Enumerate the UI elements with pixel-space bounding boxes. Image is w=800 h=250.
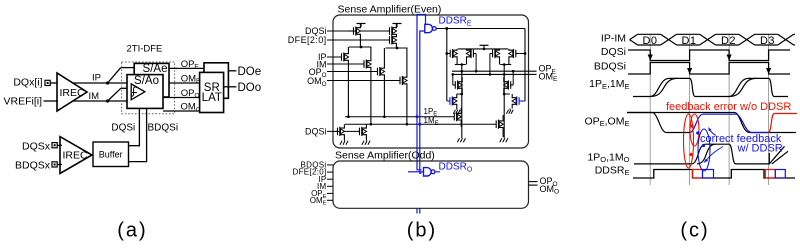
svg-text:LAT: LAT xyxy=(202,92,222,104)
wire OMo xyxy=(163,110,200,112)
wire DQSi to S/Ao xyxy=(129,108,139,145)
VDD symbol T1 xyxy=(357,23,366,25)
wire P7 gate lead xyxy=(519,53,525,55)
sampling switch wire to S/Ao xyxy=(108,88,121,101)
ground (N10) xyxy=(509,109,511,110)
transistor N12 gate 1Me xyxy=(495,123,497,125)
DDSR corrected pulse 1 (blue) xyxy=(703,170,714,179)
wire IREC to Buffer xyxy=(91,154,93,156)
wire IP stub (odd) xyxy=(327,178,333,180)
svg-text:1PE,1ME: 1PE,1ME xyxy=(589,78,629,91)
svg-text:IM: IM xyxy=(89,91,100,102)
wire N9 drain to spine xyxy=(457,93,462,95)
junction dots on 1M rail xyxy=(370,123,373,126)
waveform 1Mo trace xyxy=(697,144,716,164)
wire odd feedback stubs (blue) xyxy=(416,208,418,213)
svg-text:IP: IP xyxy=(92,73,101,84)
junction dot IM xyxy=(106,99,109,102)
wire N7 gate to OMe xyxy=(452,74,454,85)
svg-text:OPO: OPO xyxy=(181,88,200,100)
annotation arrow to OPe rise (blue) xyxy=(710,130,717,136)
transistor N2 gate IM xyxy=(363,63,365,65)
svg-text:S/Ao: S/Ao xyxy=(134,75,159,87)
arrow DQSi fall 2 xyxy=(727,55,732,61)
svg-text:DQx[i]: DQx[i] xyxy=(13,77,42,89)
VDD symbol T3 (latch) xyxy=(480,44,489,46)
transistor P5 (latch left) xyxy=(473,53,476,55)
wire OPE stub (odd) xyxy=(327,192,333,194)
wire OMo stub (odd out) xyxy=(529,184,538,186)
wire 1Pe sense (blue) xyxy=(417,15,426,170)
junction dot IP xyxy=(106,81,109,84)
wire OPo gate line (even) xyxy=(327,71,378,73)
svg-text:DQSi: DQSi xyxy=(305,127,327,137)
svg-text:OPE: OPE xyxy=(181,59,200,71)
wire DDSR output xyxy=(436,28,525,30)
DDSR corrected pulse 2 (blue) xyxy=(775,170,785,179)
ground (latch right) xyxy=(503,137,505,138)
latch supply rail xyxy=(458,48,508,50)
annotation ellipse error 2 (red) xyxy=(690,114,699,146)
node bar latch left xyxy=(455,64,466,66)
wire OPo stub (odd out) xyxy=(529,181,538,183)
svg-text:D3: D3 xyxy=(760,35,775,47)
waveform OPe corrected (blue) xyxy=(690,114,770,132)
ground (N9) xyxy=(456,109,458,110)
block Buffer xyxy=(93,142,129,167)
wire IM stub (odd) xyxy=(327,185,333,187)
transistor P1 (DQSi precharge) xyxy=(348,30,354,32)
2TI-DFE dashed box xyxy=(122,62,175,114)
wire DFE[2:0] stub (odd) xyxy=(327,171,333,173)
svg-text:(a): (a) xyxy=(117,220,147,242)
wire DOe xyxy=(228,70,236,72)
wire BDQSi stub (odd) xyxy=(327,164,333,166)
NAND gate DDSRe xyxy=(425,24,433,32)
transistor N3 gate OPo xyxy=(376,71,378,73)
node bar under P2/P3 xyxy=(386,47,408,49)
transistor N9 (DDSR nmos left, blue) xyxy=(447,100,450,102)
svg-text:1ME: 1ME xyxy=(424,116,439,127)
block S/Ae (even sense amp) xyxy=(134,63,169,97)
svg-text:D2: D2 xyxy=(721,35,736,47)
annotation arrow to DDSR pulse (blue) xyxy=(706,147,724,162)
svg-text:Sense Amplifier(Even): Sense Amplifier(Even) xyxy=(338,4,442,16)
node bar under P1 xyxy=(349,46,371,48)
svg-text:DQSi: DQSi xyxy=(601,46,626,58)
svg-text:DQSi: DQSi xyxy=(111,123,135,134)
transistor P7 (DDSR reset right) xyxy=(516,53,519,55)
latch left spine wire xyxy=(461,65,463,138)
transistor N8 (latch nmos right) xyxy=(511,84,514,86)
DDSR missed pulse 1 (red) xyxy=(693,170,703,179)
svg-text:OPE,OME: OPE,OME xyxy=(584,115,629,128)
waveform 1Pe trace xyxy=(633,78,788,96)
svg-text:VREFi[i]: VREFi[i] xyxy=(3,96,42,108)
annotation dot blue 1 xyxy=(696,131,699,134)
block SR LAT (even latch) xyxy=(204,63,228,99)
block SR LAT (odd latch) xyxy=(200,72,224,112)
waveform 1Me trace xyxy=(650,78,678,96)
wire DOo xyxy=(224,86,237,88)
wire OPo xyxy=(163,97,200,99)
transistor N6 tail (DQSi) xyxy=(358,130,360,132)
pad symbol DQx xyxy=(45,80,50,85)
svg-text:DQSx: DQSx xyxy=(22,140,51,152)
net 1Me rail xyxy=(345,123,496,125)
svg-text:1PO,1MO: 1PO,1MO xyxy=(587,151,629,164)
svg-text:w/ DDSR: w/ DDSR xyxy=(737,143,783,155)
svg-text:D0: D0 xyxy=(642,35,657,47)
wire P6 gate to OMe xyxy=(489,54,491,75)
svg-text:DDSRE: DDSRE xyxy=(595,164,630,177)
wire IM gate line (even) xyxy=(327,63,364,65)
svg-text:DDSRE: DDSRE xyxy=(439,16,472,28)
annotation dot blue 2 xyxy=(702,144,705,147)
wire 1Me sense (blue) xyxy=(420,31,425,173)
svg-text:OMO: OMO xyxy=(181,102,201,114)
amp symbol inside S/Ao xyxy=(131,84,145,100)
svg-text:BDQSi: BDQSi xyxy=(594,60,626,72)
wire N10 drain to spine xyxy=(504,93,510,95)
wire OPe (even out) xyxy=(452,70,537,72)
waveform OPe trace black xyxy=(627,113,690,133)
transistor N11 gate 1Pe xyxy=(453,116,455,118)
wire DQSi tail gate line xyxy=(327,130,360,132)
svg-text:OME: OME xyxy=(181,73,201,85)
transistor P4 (DDSR reset left) xyxy=(447,53,450,55)
amplifier IREC (strobe receiver) xyxy=(60,137,92,174)
latch right spine wire xyxy=(503,65,505,138)
svg-text:(c): (c) xyxy=(680,220,709,242)
block S/Ao (odd sense amp) xyxy=(127,75,163,109)
svg-text:Buffer: Buffer xyxy=(99,150,123,160)
waveform BDQSi xyxy=(628,63,790,75)
wire DDSRo input lead (blue) xyxy=(408,171,424,173)
transistor P6 (latch right) xyxy=(490,53,493,55)
wire BDQSx xyxy=(58,164,63,166)
amplifier IREC (data receiver) xyxy=(57,73,87,111)
transistor N10 (DDSR nmos right, blue) xyxy=(519,100,525,102)
wire BDQSi to S/Ao xyxy=(129,108,147,161)
svg-text:BDQSi: BDQSi xyxy=(148,123,179,134)
wire DDSRo output stub (blue) xyxy=(435,171,440,173)
Sense Amplifier(Odd) box xyxy=(333,161,529,208)
ground (latch left) xyxy=(461,137,463,138)
svg-text:DOo: DOo xyxy=(238,82,262,94)
waveform 1Po late rise lines xyxy=(769,146,784,164)
junction dots on 1P rail xyxy=(347,115,350,118)
NAND gate DDSRo xyxy=(424,168,432,176)
wire IP xyxy=(73,82,127,84)
waveform DDSRe xyxy=(633,170,795,179)
transistor N5 tail (DQSi) xyxy=(336,130,338,132)
svg-text:DOe: DOe xyxy=(238,66,262,78)
wire IP gate line (even) xyxy=(327,56,342,58)
DDSR missed pulse 2 (red) xyxy=(765,170,775,179)
waveform OMe trace xyxy=(627,113,796,133)
ground (tail N6) xyxy=(365,140,367,141)
svg-text:IREC: IREC xyxy=(63,150,89,162)
junction blue dot 1Pe xyxy=(416,115,419,118)
annotation dot red 1 xyxy=(690,124,693,127)
svg-text:feedback error w/o DDSR: feedback error w/o DDSR xyxy=(666,101,791,113)
svg-text:(b): (b) xyxy=(407,220,437,242)
svg-text:IP-IM: IP-IM xyxy=(601,33,626,45)
annotation ellipse error 1 (red) xyxy=(684,114,694,168)
wire OMe xyxy=(169,82,200,84)
net 1Pe rail xyxy=(345,116,454,118)
wire N8 gate to OPe xyxy=(512,71,514,85)
waveform IP-IM data eye xyxy=(630,34,638,39)
annotation ellipse correct (blue) xyxy=(698,129,710,171)
Sense Amplifier(Even) box xyxy=(333,15,529,148)
wire DFE gate line (even) xyxy=(327,39,390,41)
arrow BDQSi fall 2 xyxy=(766,68,771,74)
wire P5 gate to OPe xyxy=(475,54,477,72)
annotation dot red 2 xyxy=(689,153,692,156)
wire DQSi gate line (even) xyxy=(327,30,390,32)
svg-text:DDSRO: DDSRO xyxy=(439,162,473,174)
junction blue dot 1Me xyxy=(418,123,421,126)
sampling switch wire to S/Ae xyxy=(108,68,121,83)
transistor P3 (DFE tap) xyxy=(388,39,390,41)
ground (tail N5) xyxy=(343,140,345,141)
svg-text:D1: D1 xyxy=(681,35,696,47)
timing gridlines xyxy=(649,34,651,185)
transistor N1 gate IP xyxy=(340,56,342,58)
wire VREFi to IREC xyxy=(44,100,59,102)
wire IM xyxy=(73,100,127,102)
waveform OPe error rise (red) xyxy=(768,114,797,133)
VDD symbol T2 xyxy=(393,23,402,25)
arrow DQSi fall 1 xyxy=(648,55,653,61)
wire DQSx xyxy=(58,144,63,146)
wire OPe xyxy=(169,67,204,69)
transistor P2 (DQSi) xyxy=(388,30,390,32)
wire DDSR left drop xyxy=(446,29,448,102)
transistor N4 gate OMo xyxy=(399,80,401,82)
wire OMo gate line (even) xyxy=(327,80,400,82)
wire DDSR right drop xyxy=(524,29,526,102)
svg-text:DFE[2:0]: DFE[2:0] xyxy=(288,35,327,45)
wire OMe (even out) xyxy=(452,73,537,75)
transistor N7 (latch nmos left) xyxy=(453,84,456,86)
node bar latch right xyxy=(500,64,511,66)
svg-text:IREC: IREC xyxy=(60,87,86,99)
waveform DQSi xyxy=(628,50,790,61)
svg-text:Sense Amplifier(Odd): Sense Amplifier(Odd) xyxy=(335,150,435,162)
wire N11 drain up xyxy=(460,107,463,109)
waveform 1Po trace xyxy=(634,144,769,164)
svg-text:S/Ae: S/Ae xyxy=(143,63,168,75)
svg-text:BDQSx: BDQSx xyxy=(15,159,51,171)
wire DQx to IREC xyxy=(51,82,58,84)
arrow BDQSi fall 1 xyxy=(687,68,692,74)
svg-text:2TI-DFE: 2TI-DFE xyxy=(127,44,163,55)
wire OME stub (odd) xyxy=(327,199,333,201)
